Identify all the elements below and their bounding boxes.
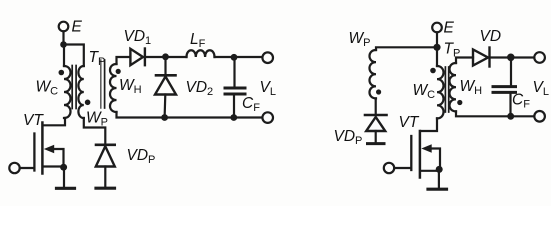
svg-text:VD: VD <box>480 28 502 45</box>
drain stub (right) <box>421 118 437 131</box>
node Tp junction <box>433 44 440 51</box>
node source junction (right) <box>436 166 443 173</box>
node after VD1 <box>162 53 169 60</box>
terminal VL- (left) <box>262 112 273 123</box>
capacitor CF (right) <box>510 58 512 86</box>
polarity dot Wp <box>85 100 91 106</box>
winding Wp (right) <box>369 50 376 98</box>
svg-text:WP: WP <box>86 110 108 129</box>
wire Wp to VDp (right) <box>375 98 377 114</box>
body stub with arrow <box>53 149 64 165</box>
gate bar <box>33 134 35 171</box>
svg-text:VDP: VDP <box>334 128 363 147</box>
wire VD1 to L <box>146 56 187 58</box>
svg-text:VL: VL <box>260 79 276 98</box>
node CF bottom <box>507 113 514 120</box>
wire Wh top to VD <box>456 58 473 64</box>
wire Wh bottom rail (right) <box>456 111 534 116</box>
core lines of Tp (right circuit) <box>444 67 446 112</box>
svg-text:TP: TP <box>444 41 461 60</box>
node junction at E branch <box>60 41 67 48</box>
svg-text:WC: WC <box>413 82 436 101</box>
wire Wh bottom rail <box>117 112 263 118</box>
terminal E (right) <box>432 23 442 33</box>
wire junction to Wp top <box>64 45 84 67</box>
wire junction down to Wc <box>63 45 65 67</box>
wire L to output <box>215 56 263 58</box>
node VD2 anode <box>161 114 168 121</box>
node CF bottom <box>230 114 237 121</box>
svg-text:VDP: VDP <box>127 147 156 166</box>
channel bar <box>41 123 44 174</box>
body stub with arrow (right) <box>430 149 440 167</box>
diode VD2 <box>164 57 166 75</box>
svg-text:VT: VT <box>399 114 420 131</box>
svg-text:VD1: VD1 <box>124 28 152 47</box>
inductor LF <box>187 50 215 57</box>
winding Wh (right) <box>449 63 456 111</box>
svg-text:WH: WH <box>119 77 142 96</box>
svg-text:WC: WC <box>36 79 59 98</box>
polarity dot Wc (right) <box>430 68 436 74</box>
node source junction <box>60 164 67 171</box>
wire E to junction <box>62 31 64 44</box>
transistor VT (left): gate terminal <box>9 163 19 173</box>
svg-text:E: E <box>72 19 83 36</box>
svg-text:LF: LF <box>190 31 206 50</box>
svg-text:CF: CF <box>242 95 260 114</box>
source stub <box>44 165 64 167</box>
wire E to junction <box>436 32 438 47</box>
winding Wp (left circuit) <box>78 66 83 118</box>
capacitor CF (left) <box>233 57 235 86</box>
polarity dot Wc <box>59 70 65 76</box>
terminal VL- (right) <box>534 111 545 122</box>
wire VD to output <box>491 56 535 58</box>
ground (under VT source) <box>63 167 65 187</box>
svg-text:TP: TP <box>89 49 106 68</box>
svg-text:VT: VT <box>23 112 44 129</box>
ground (under VDp) <box>96 187 115 190</box>
svg-text:E: E <box>444 20 455 37</box>
svg-text:VL: VL <box>533 79 549 98</box>
core lines of Tp (left pair) <box>71 66 73 109</box>
transistor VT (right): gate terminal <box>384 163 394 173</box>
polarity dot Wh (right) <box>457 100 462 105</box>
diode VD1 <box>130 49 143 65</box>
channel bar (right) <box>419 131 422 178</box>
ground (under VT right) <box>438 169 440 188</box>
terminal VL+ (left) <box>262 52 273 63</box>
polarity dot Wh <box>116 69 121 74</box>
terminal E (left) <box>59 22 69 32</box>
terminal VL+ (right) <box>534 52 545 63</box>
polarity dot Wp (right) <box>376 89 381 94</box>
gate bar (right) <box>410 136 412 170</box>
diode VD (right) <box>473 50 488 66</box>
node at CF top <box>231 54 238 61</box>
winding Wh (left circuit) <box>110 64 117 112</box>
diode VDp (right) <box>365 114 387 117</box>
source stub (right) <box>421 170 439 172</box>
diode VDp (left) <box>96 144 115 147</box>
wire Wp bottom to VDp <box>84 118 106 144</box>
svg-text:WH: WH <box>460 78 483 97</box>
wire junction to Wp (right) <box>376 47 437 50</box>
svg-text:VD2: VD2 <box>186 79 214 98</box>
winding Wc (right) <box>436 47 438 66</box>
svg-text:CF: CF <box>512 92 530 111</box>
svg-text:WP: WP <box>349 30 371 49</box>
wire Wh top to VD1 <box>117 57 131 64</box>
winding Wc (left) <box>64 66 71 118</box>
drain stub to Wc <box>44 118 66 125</box>
node after VD <box>507 54 515 62</box>
core lines of Tp (right pair) <box>100 60 102 108</box>
